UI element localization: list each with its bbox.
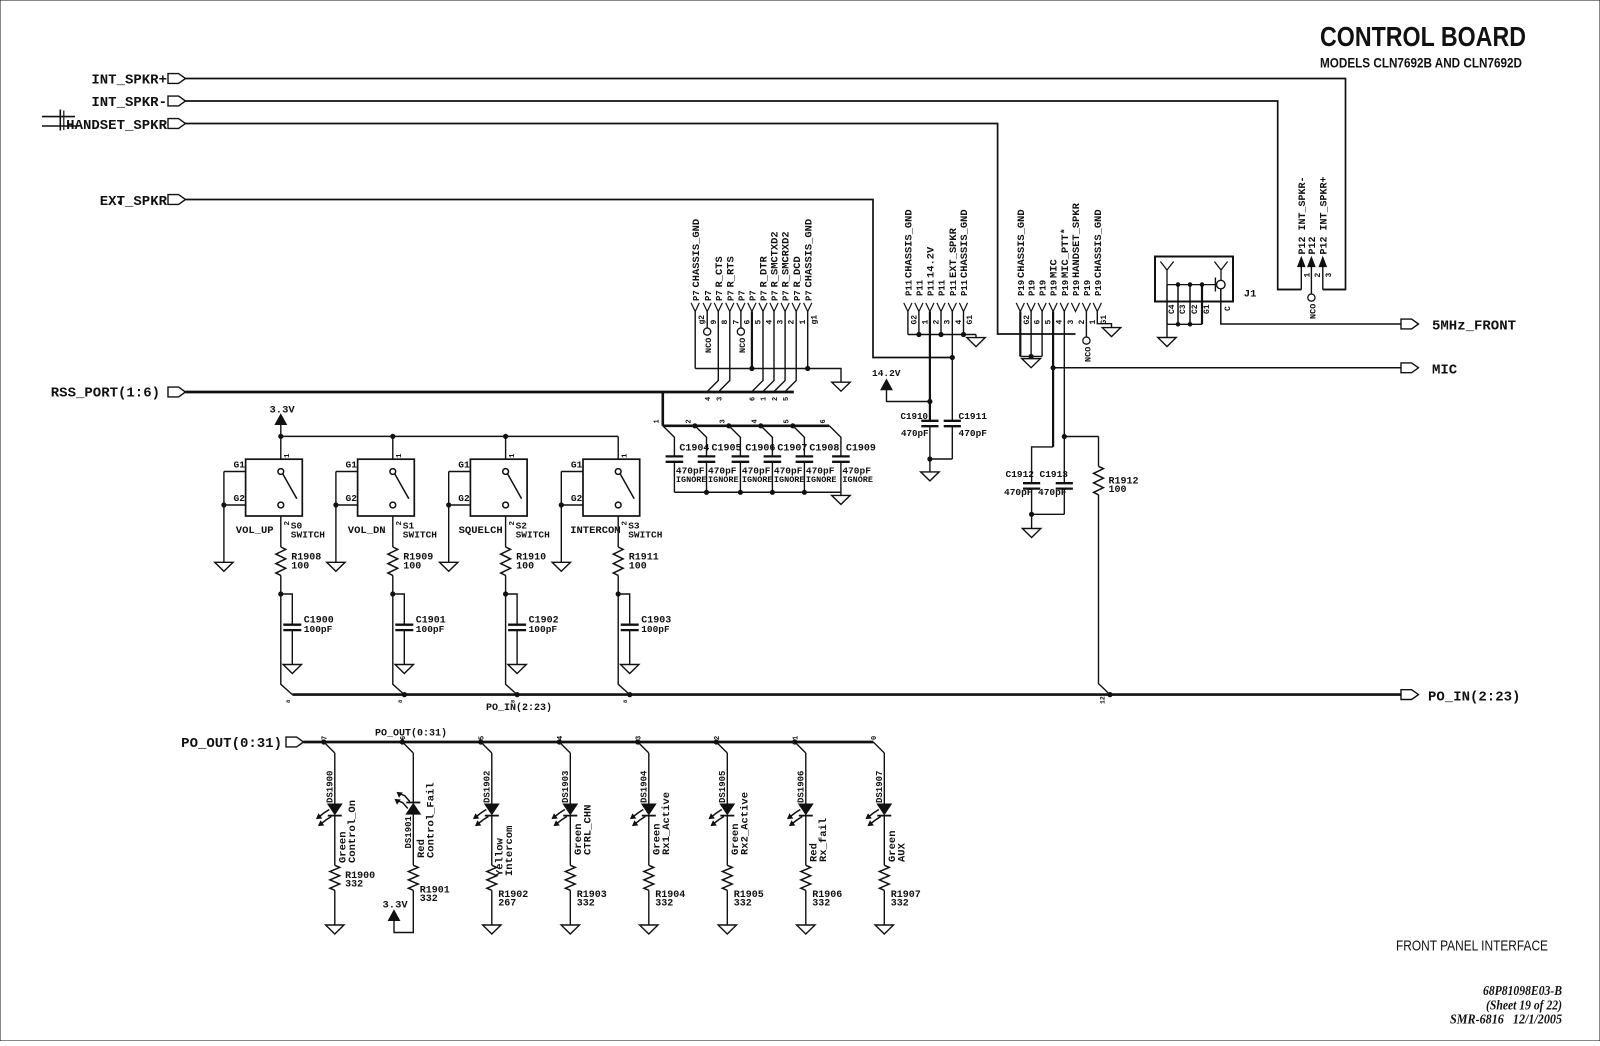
svg-text:3: 3: [636, 736, 644, 740]
wire C1912 C1913 join: [1030, 512, 1065, 528]
capacitor C1906 470pF IGNORE: [729, 426, 776, 493]
wire P7 signal to RSS_PORT bit 2: [772, 312, 785, 402]
ground DS1906 branch: [797, 925, 815, 934]
svg-text:G1: G1: [966, 315, 975, 325]
capacitor C1902 100pF: [506, 594, 559, 665]
connector P7 pin 2 R_SMCRXD2: [781, 231, 797, 324]
connector J1 box: [1155, 257, 1233, 302]
svg-text:SQUELCH: SQUELCH: [459, 525, 503, 537]
svg-text:6: 6: [750, 397, 758, 401]
ground C1902: [508, 665, 526, 674]
svg-text:R_RTS: R_RTS: [725, 256, 737, 287]
resistor R1908 100: [276, 516, 321, 575]
svg-text:332: 332: [812, 899, 830, 910]
svg-text:332: 332: [891, 899, 909, 910]
svg-text:G1: G1: [346, 460, 358, 471]
NCO no-connect: [704, 312, 715, 354]
NCO P19 pin1: [1083, 312, 1094, 363]
resistor R1900 332: [330, 816, 375, 891]
connector P19 pin G2 CHASSIS_GND: [1016, 209, 1032, 324]
svg-text:2: 2: [714, 736, 722, 740]
svg-text:4: 4: [766, 320, 775, 325]
svg-text:R_CTS: R_CTS: [714, 256, 726, 287]
ground C1910: [921, 472, 939, 481]
wire S0 pin1 from rail: [281, 436, 292, 459]
connector P11 pin 1: [915, 279, 931, 324]
wire S3 pin1 from rail: [618, 436, 629, 459]
ground P19 G1: [1102, 328, 1120, 337]
connector P12 pin 3 P12 INT_SPKR+: [1319, 176, 1334, 289]
wire 3.3V rail: [279, 434, 619, 438]
capacitor C1904 470pF IGNORE: [663, 426, 710, 493]
svg-text:Rx2_Active: Rx2_Active: [740, 792, 752, 855]
svg-text:2: 2: [509, 521, 517, 526]
svg-text:3: 3: [1067, 320, 1076, 325]
svg-text:3: 3: [720, 419, 728, 423]
bus PO_OUT: [304, 741, 874, 744]
svg-text:9: 9: [710, 320, 719, 325]
svg-text:AUX: AUX: [897, 842, 909, 862]
ground C1900: [283, 665, 301, 674]
svg-text:3: 3: [1325, 273, 1334, 278]
svg-text:332: 332: [734, 899, 752, 910]
ground DS1903 branch: [561, 925, 579, 934]
resistor R1902 267: [487, 816, 528, 910]
ground J1: [1158, 338, 1176, 347]
wire cap top rail: [663, 419, 830, 428]
connector P7 pin 1 R_DCD: [792, 256, 808, 324]
connector P7 pin 8 R_CTS: [714, 256, 730, 324]
LED DS1906 Red Rx_fail: [788, 753, 813, 826]
svg-text:5: 5: [783, 397, 791, 401]
wire EXT_SPKR to P11 pin4: [186, 200, 953, 358]
svg-text:12: 12: [1100, 696, 1107, 704]
svg-text:7: 7: [732, 320, 741, 325]
ground P7: [832, 382, 850, 391]
wire S2 branch to PO_IN bus: [506, 594, 518, 703]
ground DS1905 branch: [718, 925, 736, 934]
resistor R1907 332: [879, 816, 920, 910]
ground DS1904 branch: [640, 925, 658, 934]
svg-text:P7: P7: [715, 290, 725, 301]
wire HANDSET_SPKR to P19 pin2: [186, 124, 1076, 335]
svg-text:100: 100: [629, 562, 647, 573]
svg-text:VOL_DN: VOL_DN: [348, 525, 386, 537]
svg-text:P7: P7: [760, 290, 770, 301]
wire R1906 to ground: [805, 890, 807, 925]
svg-text:470pF: 470pF: [901, 428, 929, 439]
svg-text:CHASSIS_GND: CHASSIS_GND: [803, 219, 815, 288]
J1 pin C3: [1178, 285, 1188, 325]
wire P19 pin4 MIC net: [1032, 312, 1056, 484]
svg-text:2: 2: [284, 521, 292, 526]
capacitor C1909 470pF IGNORE: [829, 426, 876, 493]
speck dot: [119, 201, 122, 204]
svg-text:C1913: C1913: [1040, 469, 1069, 480]
svg-text:P11: P11: [916, 279, 926, 296]
svg-text:332: 332: [577, 899, 595, 910]
svg-text:PO_IN(2:23): PO_IN(2:23): [1428, 690, 1520, 706]
svg-text:4: 4: [752, 419, 760, 423]
label Yellow Intercom: [494, 826, 516, 876]
connector P11 pin 2 14.2V: [926, 246, 942, 324]
wire R1900 to ground: [334, 890, 336, 925]
svg-text:DS1903: DS1903: [561, 771, 571, 803]
wire P11 pin2 14.2V net: [928, 312, 932, 421]
connector P7 pin 3 R_SMCTXD2: [770, 231, 786, 324]
svg-text:g2: g2: [698, 315, 707, 325]
svg-text:100: 100: [516, 562, 534, 573]
connector P12 pin 1 P12 INT_SPKR-: [1298, 176, 1313, 289]
svg-text:SWITCH: SWITCH: [291, 530, 326, 541]
capacitor C1912 470pF: [1004, 469, 1040, 514]
power 14.2V: [872, 368, 930, 402]
svg-text:470pF: 470pF: [1038, 487, 1067, 498]
svg-text:G2: G2: [911, 315, 920, 325]
svg-text:P7: P7: [782, 290, 792, 301]
connector P7 pin g2 CHASSIS_GND: [691, 219, 707, 325]
svg-text:G1: G1: [571, 460, 583, 471]
svg-text:1: 1: [653, 419, 661, 423]
svg-text:G2: G2: [234, 493, 246, 504]
resistor R1909 100: [388, 516, 433, 575]
svg-text:100pF: 100pF: [641, 624, 670, 635]
wire P7 signal to RSS_PORT bit 5: [783, 312, 796, 402]
svg-text:PO_OUT(0:31): PO_OUT(0:31): [375, 728, 447, 740]
svg-text:1: 1: [761, 397, 769, 401]
svg-text:INT_SPKR-: INT_SPKR-: [91, 95, 167, 111]
svg-text:PO_OUT(0:31): PO_OUT(0:31): [181, 736, 282, 752]
J1 pin C4: [1167, 285, 1177, 325]
svg-text:P7: P7: [804, 290, 814, 301]
svg-text:(Sheet 19 of 22): (Sheet 19 of 22): [1486, 999, 1562, 1014]
svg-text:C1905: C1905: [712, 444, 742, 455]
svg-text:R_DCD: R_DCD: [792, 256, 804, 287]
LED DS1902 Yellow Intercom: [474, 753, 499, 826]
svg-text:DS1907: DS1907: [875, 771, 885, 803]
power 3.3V switches: [270, 405, 296, 437]
svg-text:P11: P11: [960, 279, 970, 296]
bus RSS_PORT: [186, 391, 794, 394]
connector P7 pin g1 CHASSIS_GND: [803, 219, 819, 325]
svg-text:100: 100: [1109, 485, 1127, 496]
svg-text:IGNORE: IGNORE: [842, 475, 873, 485]
connector P7 pin 6: [737, 290, 753, 324]
connector P7 pin 7 R_RTS: [725, 256, 741, 324]
svg-text:3: 3: [944, 320, 953, 325]
label Red Control_Fail: [416, 782, 438, 858]
svg-text:0: 0: [871, 736, 879, 740]
svg-text:INTERCOM: INTERCOM: [570, 525, 620, 537]
capacitor C1913 470pF: [1038, 469, 1073, 514]
wire J1 ground rail: [1167, 323, 1202, 338]
wire S1 G1 G2 ground net: [334, 472, 358, 563]
wire R1905 to ground: [726, 890, 728, 925]
wire P12 bottom jogs: [1278, 289, 1346, 291]
svg-text:4: 4: [557, 736, 565, 740]
svg-text:IGNORE: IGNORE: [806, 475, 837, 485]
svg-text:3.3V: 3.3V: [270, 405, 296, 417]
svg-text:J1: J1: [1244, 289, 1257, 301]
label Green CTRL_CHN: [573, 805, 595, 855]
svg-text:FRONT PANEL INTERFACE: FRONT PANEL INTERFACE: [1396, 938, 1548, 955]
wire R1904 to ground: [648, 890, 650, 925]
svg-text:P11: P11: [949, 279, 959, 296]
svg-text:MIC: MIC: [1432, 363, 1458, 379]
svg-text:C1911: C1911: [959, 411, 988, 422]
resistor R1906 332: [801, 816, 842, 910]
svg-text:HANDSET_SPKR: HANDSET_SPKR: [66, 118, 167, 134]
svg-text:IGNORE: IGNORE: [774, 475, 805, 485]
svg-text:P19: P19: [1094, 280, 1104, 296]
svg-text:IGNORE: IGNORE: [708, 475, 739, 485]
label Green AUX: [887, 830, 909, 862]
svg-text:C: C: [1224, 306, 1233, 311]
svg-text:5: 5: [784, 419, 792, 423]
svg-text:EXT_SPKR: EXT_SPKR: [948, 227, 960, 278]
NCO no-connect: [737, 312, 748, 354]
wire PO_OUT tap 4 to DS1903 branch: [557, 736, 570, 753]
wire PO_OUT tap 3 to DS1904 branch: [636, 736, 649, 753]
wire R1912 to PO_IN bus: [1099, 495, 1113, 704]
wire S3 G1 G2 ground net: [559, 472, 583, 563]
svg-text:3: 3: [777, 320, 786, 325]
wire C1910 C1911 join: [928, 457, 952, 472]
svg-text:DS1902: DS1902: [483, 771, 493, 803]
svg-text:G2: G2: [571, 493, 583, 504]
ground C1912: [1022, 529, 1040, 538]
capacitor C1901 100pF: [393, 594, 446, 665]
LED DS1904 Green Rx1_Active: [631, 753, 656, 826]
LED DS1900 Green Control_On: [317, 753, 342, 826]
wire R1911 to bus junction: [616, 575, 620, 596]
port MIC: [1401, 363, 1458, 379]
svg-text:2: 2: [686, 419, 694, 423]
svg-text:P11: P11: [905, 279, 915, 296]
svg-text:NCO: NCO: [1083, 347, 1093, 362]
svg-text:5MHz_FRONT: 5MHz_FRONT: [1432, 319, 1516, 335]
J1 pin G1: [1202, 285, 1212, 325]
svg-text:14.2V: 14.2V: [926, 246, 938, 278]
svg-text:P12 INT_SPKR+: P12 INT_SPKR+: [1319, 176, 1330, 254]
svg-text:EXT_SPKR: EXT_SPKR: [100, 194, 168, 210]
wire P11 ground rail: [908, 312, 976, 337]
ground P11: [967, 335, 985, 347]
connector P19 pin 5: [1038, 280, 1054, 325]
svg-text:C3: C3: [1179, 304, 1188, 314]
svg-text:CHASSIS_GND: CHASSIS_GND: [1016, 209, 1028, 278]
label Green Rx1_Active: [651, 792, 673, 855]
svg-text:Rx_fail: Rx_fail: [818, 818, 830, 862]
connector P7 pin 5: [748, 290, 764, 324]
svg-text:DS1905: DS1905: [718, 771, 728, 803]
svg-text:1: 1: [622, 453, 630, 458]
svg-text:P19: P19: [1017, 280, 1027, 296]
switch S3 INTERCOM: [570, 459, 663, 540]
svg-text:14.2V: 14.2V: [872, 368, 901, 379]
ground DS1900 branch: [326, 925, 344, 934]
svg-text:Control_On: Control_On: [347, 800, 359, 863]
svg-text:P7: P7: [771, 290, 781, 301]
connector P19 pin 3 MIC_PTT*: [1060, 228, 1076, 324]
wire cap bottom rail: [674, 490, 841, 494]
svg-text:470pF: 470pF: [1004, 487, 1033, 498]
svg-text:CHASSIS_GND: CHASSIS_GND: [959, 209, 971, 278]
wire P19 ground rail: [1020, 312, 1042, 359]
ground DS1902 branch: [483, 925, 501, 934]
resistor R1905 332: [722, 816, 763, 910]
label Green Rx2_Active: [730, 792, 752, 855]
connector P7 pin 4 R_DTR: [759, 256, 775, 325]
port PO_IN(2:23): [1401, 690, 1520, 706]
resistor R1911 100: [613, 516, 658, 575]
svg-text:HANDSET_SPKR: HANDSET_SPKR: [1071, 202, 1083, 278]
svg-text:2: 2: [933, 320, 942, 325]
svg-text:4: 4: [1056, 320, 1065, 325]
svg-text:CONTROL BOARD: CONTROL BOARD: [1320, 21, 1526, 52]
svg-text:4: 4: [955, 320, 964, 325]
svg-text:CHASSIS_GND: CHASSIS_GND: [1093, 209, 1105, 278]
svg-text:IGNORE: IGNORE: [742, 475, 773, 485]
resistor R1912 100: [1094, 437, 1139, 497]
wire R1907 to ground: [883, 890, 885, 925]
svg-text:INT_SPKR+: INT_SPKR+: [91, 73, 167, 89]
wire R1902 to ground: [491, 890, 493, 925]
svg-text:6: 6: [820, 419, 828, 423]
svg-text:C1912: C1912: [1006, 469, 1035, 480]
svg-text:100: 100: [291, 562, 309, 573]
artifact marks: [42, 116, 75, 118]
connector P19 pin 1: [1082, 280, 1098, 325]
svg-text:G2: G2: [346, 493, 358, 504]
svg-text:DS1904: DS1904: [640, 770, 650, 803]
svg-text:PO_IN(2:23): PO_IN(2:23): [486, 702, 552, 714]
wire P7 signal to RSS_PORT bit 6: [750, 312, 763, 402]
J1 jack symbol: [1215, 278, 1225, 292]
svg-text:100: 100: [403, 562, 421, 573]
wire PO_OUT tap 7 to DS1900 branch: [322, 736, 335, 753]
wire PO_OUT tap 2 to DS1905 branch: [714, 736, 727, 753]
wire P7 ground rail: [695, 312, 841, 383]
svg-text:Intercom: Intercom: [504, 826, 516, 876]
svg-text:P19: P19: [1050, 280, 1060, 296]
wire PO_OUT tap 0 to DS1907 branch: [871, 736, 884, 753]
svg-text:5: 5: [479, 736, 487, 740]
svg-text:2: 2: [396, 521, 404, 526]
svg-text:Control_Fail: Control_Fail: [426, 782, 438, 858]
wire PO_OUT tap 1 to DS1906 branch: [793, 736, 806, 753]
ground P19: [1022, 359, 1040, 368]
svg-text:C4: C4: [1168, 304, 1177, 314]
capacitor C1905 470pF IGNORE: [695, 426, 742, 493]
wire R1908 to bus junction: [279, 575, 283, 596]
ground S3: [552, 562, 570, 571]
bus PO_IN: [292, 693, 1401, 697]
svg-text:g1: g1: [810, 315, 819, 325]
capacitor C1903 100pF: [618, 594, 671, 665]
svg-text:8: 8: [721, 320, 730, 325]
switch S1 VOL_DN: [346, 459, 438, 540]
svg-text:4: 4: [705, 397, 713, 401]
svg-text:C1909: C1909: [846, 444, 876, 455]
wire S2 G1 G2 ground net: [447, 472, 471, 563]
svg-text:G1: G1: [234, 460, 246, 471]
wire P19 G1 ground: [1097, 312, 1111, 328]
resistor R1903 332: [565, 816, 606, 910]
svg-text:2: 2: [1314, 273, 1323, 278]
svg-text:NCO: NCO: [1308, 304, 1318, 319]
LED DS1901 Red Control_Fail (reversed): [395, 753, 420, 849]
svg-text:P11: P11: [938, 279, 948, 296]
svg-text:2: 2: [772, 397, 780, 401]
svg-text:CTRL_CHN: CTRL_CHN: [583, 805, 595, 855]
wire S3 branch to PO_IN bus: [618, 594, 630, 703]
wire P19 pin3 MIC_PTT* net: [1062, 312, 1098, 484]
wire R1910 to bus junction: [504, 575, 508, 596]
svg-text:C1904: C1904: [679, 444, 709, 455]
svg-text:SWITCH: SWITCH: [403, 530, 438, 541]
ground C1903: [621, 665, 639, 674]
wire INT_SPKR- to P12: [186, 101, 1302, 290]
svg-text:3: 3: [717, 397, 725, 401]
switch S0 VOL_UP: [234, 459, 326, 540]
NCO P12 pin2: [1308, 290, 1319, 320]
ground S2: [440, 562, 458, 571]
port 5MHz_FRONT: [1401, 319, 1516, 335]
connector P19 pin 2 HANDSET_SPKR: [1071, 202, 1087, 324]
wire S0 branch to PO_IN bus: [281, 594, 293, 703]
svg-text:C1908: C1908: [809, 444, 839, 455]
J1 antenna right: [1214, 262, 1227, 281]
svg-text:1: 1: [396, 453, 404, 458]
ground S1: [327, 562, 345, 571]
svg-text:Rx1_Active: Rx1_Active: [661, 792, 673, 855]
svg-text:P19: P19: [1028, 280, 1038, 296]
svg-text:P19: P19: [1083, 280, 1093, 296]
svg-text:267: 267: [498, 899, 516, 910]
port PO_OUT(0:31): [181, 736, 303, 752]
switch S2 SQUELCH: [458, 459, 550, 540]
svg-text:P7: P7: [749, 290, 759, 301]
wire P7 signal to RSS_PORT bit 4: [705, 312, 718, 402]
svg-text:P19: P19: [1061, 280, 1071, 296]
wire RSS bus drop to cap rail: [653, 392, 663, 426]
svg-text:G1: G1: [1203, 304, 1212, 314]
svg-text:332: 332: [345, 880, 363, 891]
svg-text:CHASSIS_GND: CHASSIS_GND: [904, 209, 916, 278]
wire P7 signal to RSS_PORT bit 1: [761, 312, 774, 402]
ground S0: [215, 562, 233, 571]
wire R1909 to bus junction: [391, 575, 395, 596]
svg-text:C1907: C1907: [777, 444, 807, 455]
connector P11 pin 3: [937, 279, 953, 324]
svg-text:MIC: MIC: [1049, 259, 1061, 278]
svg-text:NCO: NCO: [704, 338, 714, 353]
svg-text:NCO: NCO: [738, 338, 748, 353]
svg-text:P7: P7: [692, 290, 702, 301]
svg-text:G2: G2: [458, 493, 470, 504]
svg-text:C1906: C1906: [745, 444, 775, 455]
wire J1 C to 5MHz_FRONT: [1221, 289, 1401, 324]
svg-text:IGNORE: IGNORE: [676, 475, 707, 485]
capacitor C1907 470pF IGNORE: [761, 426, 808, 493]
svg-text:470pF: 470pF: [959, 428, 988, 439]
LED DS1903 Green CTRL_CHN: [552, 753, 577, 826]
connector P11 pin G2 CHASSIS_GND: [904, 209, 920, 324]
svg-text:332: 332: [655, 899, 673, 910]
svg-text:MODELS CLN7692B AND CLN7692D: MODELS CLN7692B AND CLN7692D: [1320, 55, 1522, 71]
wire R1901 to 3.3V: [394, 890, 413, 932]
